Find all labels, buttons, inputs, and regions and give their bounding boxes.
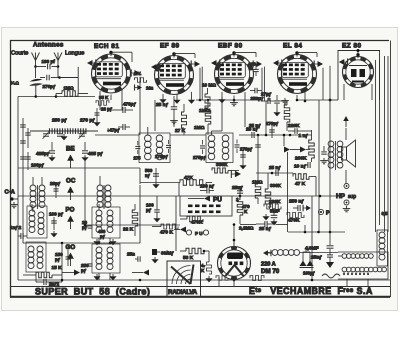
box oscillator PO [27,206,47,238]
ground V2 pin 1 [162,97,164,99]
wire det down [139,185,141,243]
electrolytic triangle ps [329,257,331,262]
oscillator coil L5 [29,210,35,216]
capacitor 25nf det [237,190,243,192]
electrolytic 5MF [271,214,278,216]
svg-text:470K: 470K [191,220,203,226]
wire right rail 2 [379,60,381,216]
ground coil GO 2 [112,274,114,276]
padder coil box PO [92,207,120,238]
padder coil box GO [92,244,120,273]
wire +HT down [345,128,347,140]
title band upper rule [10,286,390,288]
ground speaker [323,158,325,161]
wire EL84 bus [311,158,313,162]
oscillator coil L7 [28,246,34,252]
speaker HP [342,147,347,160]
ground V4 [284,98,286,101]
svg-text:330K: 330K [216,162,228,168]
svg-text:100 pf: 100 pf [42,59,56,64]
svg-text:C·A: C·A [5,190,16,196]
wire top HT [296,95,298,100]
antenna coil L2 [39,185,45,191]
svg-text:270 pƒ: 270 pƒ [80,118,95,124]
svg-text:100pƒ: 100pƒ [31,163,44,168]
capacitor 500nf [153,173,159,175]
svg-text:275pƒ: 275pƒ [155,154,168,159]
svg-text:Antennes: Antennes [33,42,64,49]
wire ps verticals [302,252,304,260]
svg-text:275pƒ: 275pƒ [193,155,206,160]
svg-text:25 nƒ: 25 nƒ [249,123,261,128]
wire top rail [196,99,258,101]
ground V3 b [221,97,223,99]
ground left top [13,202,15,205]
capacitor 25n bm [137,256,139,262]
svg-text:470pƒ: 470pƒ [123,102,136,107]
capacitor 36MF [152,249,157,255]
wire mains down [346,279,348,286]
wire el caps [257,135,259,178]
svg-text:2,2MΩ: 2,2MΩ [239,226,254,232]
arrow to V4 grid [273,60,279,66]
svg-text:pƒ: pƒ [81,268,87,273]
tube V2 top cap wire [174,53,195,55]
arrow 250nf [306,205,311,210]
svg-text:260K: 260K [295,156,307,162]
svg-text:22 K: 22 K [123,227,134,233]
wire IF1 top [139,77,141,135]
IF T1 trimmer 1 [135,145,140,147]
wire DM70 to bus [233,225,235,247]
heater wire [218,277,220,286]
ground 36MF [154,257,156,259]
wire 6V3 to transformer [300,252,339,254]
capacitor 100pf antenna [36,66,47,68]
IF T1 trimmer 2 [166,144,171,146]
wire antenna stem [35,67,37,79]
transformer frame [338,252,388,279]
output transformer primary [328,141,334,147]
ground 25nf V2 [173,118,175,121]
PU box [180,196,232,216]
arrow to V1 grid [87,60,93,66]
ground audio b [265,214,267,216]
IF T2 trimmer 1 [200,145,205,147]
resistor 470K b [287,213,304,218]
svg-text:56 K: 56 K [183,255,194,261]
wire mid rail 2 [170,134,206,136]
ground coil PO 2 [112,239,114,241]
PU switch row 2 [188,211,193,214]
arrow to V2 grid [151,64,157,70]
svg-text:470K: 470K [288,218,300,224]
wire V2 pins [162,94,164,97]
wire ps top [288,231,345,233]
border frame left [10,40,12,297]
svg-text:pƒ: pƒ [82,225,88,230]
svg-text:4,0MF: 4,0MF [305,246,319,252]
wire 330 B+ [329,140,331,232]
antenna coil L1 [30,185,36,191]
ground V3 [233,100,235,103]
wire V3 top cap run [234,51,256,53]
filament winding 6V3 ps [342,254,347,259]
connector PU 2 [203,230,208,235]
variable capacitor CV2 [57,133,63,135]
svg-text:425pƒ: 425pƒ [36,151,50,157]
svg-text:PU: PU [213,197,222,204]
coil core L3L4 [103,185,105,209]
dial box [167,261,201,287]
arrow +HT [345,120,347,127]
svg-text:SUPER BUT 58 (Cadre): SUPER BUT 58 (Cadre) [35,286,150,296]
arrow from V3 anode [257,61,263,67]
arrow PU [204,196,210,202]
wire pu rail [18,195,180,197]
arrow volume [284,147,290,153]
antenna Longue [54,53,58,61]
resistor 22K [132,210,138,226]
svg-text:1nƒ 2: 1nƒ 2 [10,225,22,230]
tube V3 EBF 80 [215,55,254,94]
svg-text:P U: P U [195,231,203,236]
arrow to V3 grid [211,60,217,66]
wire to grid [60,77,79,79]
coil L11 [96,247,102,253]
arrow from V2 anode [195,61,201,67]
wire left column [22,118,24,243]
wire mid bus [85,224,180,226]
capacitor speaker [321,151,327,153]
resistor 15K [36,272,52,278]
coil L12 [107,247,113,253]
coil core L1L2 [37,185,39,209]
wire V5 arrow down [329,66,331,100]
IF T1 primary coil [145,135,152,142]
svg-text:1MΩ: 1MΩ [64,86,74,91]
arrow AV [137,85,142,90]
ground 100pf pu [156,216,158,218]
svg-text:330K: 330K [270,183,282,188]
wire x85 vertical [84,158,86,225]
wire HT vertical 1 [318,100,320,232]
IF T2 trimmer 2 [235,144,240,146]
arrow PU gnd [180,227,186,233]
svg-text:1: 1 [236,197,239,202]
wire DM70 bottom [233,280,235,287]
ground 47K dial [208,276,210,278]
svg-text:425 pƒ: 425 pƒ [88,151,103,157]
svg-text:10 MΩ: 10 MΩ [202,83,216,88]
svg-text:1MΩ: 1MΩ [194,125,205,131]
arrow det out [235,171,241,178]
tuning dial arcs [186,279,191,284]
capacitor 250pf b [88,263,93,265]
arrow DM70 [263,250,268,255]
arrow to V5 plate [339,59,345,65]
resistor 1M det [255,184,261,198]
capacitor 20pf b [88,225,93,227]
connector HP sup 2 [344,200,349,205]
ground coil PO [96,239,98,241]
svg-text:EBF 80: EBF 80 [218,43,243,50]
ground HP [346,206,348,209]
svg-text:pƒ: pƒ [55,257,61,262]
capacitor column 4 [25,156,31,158]
svg-text:220 A: 220 A [261,262,276,268]
tube V5 EZ 80 [343,57,374,88]
wire bottom bus [18,279,390,281]
ground 5MF [273,219,275,221]
svg-text:A.V.: A.V. [134,71,142,76]
svg-text:47 K: 47 K [295,181,306,187]
svg-text:270pƒ: 270pƒ [240,147,253,152]
capacitor 40MF [327,245,334,247]
electrolytic 50MF 2 [309,260,311,264]
tube V1 top cap wire [111,51,132,53]
antenna Courte [32,53,36,61]
svg-text:270pƒ: 270pƒ [266,121,279,126]
tube V6 DM 70 [218,247,251,280]
svg-text:10 nƒ: 10 nƒ [294,164,307,170]
svg-text:Eᵗˢ VECHAMBRE Fʳᵉˢ S.A: Eᵗˢ VECHAMBRE Fʳᵉˢ S.A [249,286,373,296]
IF transformer T1 box [139,133,170,163]
wire right rail 1 [375,60,377,216]
junction HT [329,99,332,102]
svg-text:EZ 80: EZ 80 [342,43,362,50]
svg-text:Courte: Courte [11,51,28,57]
resistor 470K det [161,224,178,229]
ground gang [63,134,65,136]
wire transformer down [345,170,347,184]
svg-text:1 nƒ: 1 nƒ [299,133,309,139]
svg-text:25nƒ: 25nƒ [232,185,243,191]
wire left vertical bus [17,97,19,281]
wire mid rail 3 [239,134,312,136]
arrow bottom [143,270,149,276]
wire 288 v [287,152,289,214]
border frame top [10,40,389,42]
transformer taps [343,273,345,275]
border frame right [390,41,392,298]
variable capacitor CV3 [79,133,85,135]
svg-text:6,5: 6,5 [382,211,388,216]
IF T1 secondary coil [156,135,163,142]
svg-text:OC: OC [66,178,76,185]
IF T2 secondary coil [222,135,229,142]
wire 56K right [204,250,209,252]
svg-text:36/Mƒ: 36/Mƒ [161,251,174,256]
resistor 47K out [293,174,309,180]
oscillator coil L6 [38,212,44,218]
wire longue down [57,67,59,78]
tube V2 EF 89 [155,56,194,95]
jack P [318,209,323,214]
svg-text:GO: GO [66,244,76,251]
capacitor 25nf ps [327,254,333,256]
capacitor column 3 [25,132,31,134]
ground 425pf right [84,155,86,157]
tube V4 top cap run [297,52,317,54]
connector HP sup 1 [344,184,349,189]
svg-text:pƒ: pƒ [100,234,106,239]
svg-text:100: 100 [249,62,257,67]
svg-text:Longue: Longue [65,51,84,57]
svg-text:15 K: 15 K [52,265,63,271]
ground V1 k [96,120,98,122]
wire EL84 grid [268,95,270,101]
svg-text:ECH 81: ECH 81 [94,43,119,50]
wire det verticals [175,196,177,251]
coil L9 [96,210,102,216]
switch antenna [30,79,43,82]
svg-text:270pƒ: 270pƒ [43,84,56,89]
wire det bus [139,168,141,184]
svg-text:5MF: 5MF [270,209,280,215]
svg-text:95 K: 95 K [99,95,109,100]
filament coil 6V3 [272,250,278,256]
ground 500nf [155,182,157,184]
antenna coil L3 [97,185,103,191]
arrow BE [70,160,72,168]
ground 100pf PO [53,231,55,233]
arrow from V4 anode [318,61,324,67]
wire right rail 3 [384,56,386,232]
svg-text:¹⁄₊Ω: ¹⁄₊Ω [11,81,20,86]
ground V2 pin 2 [176,98,178,100]
resistor bottom strip 1 [250,276,264,281]
wire V4 anode arrow down [322,68,324,100]
capacitor column 2 [20,140,26,142]
svg-text:pƒ: pƒ [310,271,316,276]
wire HT vertical 2 [329,100,331,140]
border frame bottom [10,296,390,298]
resistor 10M [205,94,210,112]
svg-text:470 K: 470 K [160,230,173,236]
resistor bottom strip 2 [216,276,228,281]
wire V3 grid arrow down [201,67,203,100]
connector C+A [10,197,13,200]
capacitor 27pf [254,88,256,94]
svg-text:20pƒ: 20pƒ [50,181,61,186]
choke box [377,230,388,266]
svg-text:250 nƒ: 250 nƒ [289,199,304,205]
output transformer secondary [337,141,343,147]
wire V2 anode arrow down [199,68,201,100]
ground V2 pin 3 [191,98,193,100]
dial needle 1 [171,267,191,285]
svg-text:DM 70: DM 70 [261,268,280,275]
wire EZ80 sides [343,84,345,100]
wire V3 pins down [221,92,223,131]
svg-text:sup: sup [348,194,356,200]
tube V4 EL 84 [278,55,317,94]
capacitor V4 cathode [274,100,280,102]
capacitor 270pf v [269,129,275,131]
wire V4 grid arrow down [263,67,265,101]
svg-text:16n: 16n [146,86,154,91]
wire HT to EZ [330,99,338,101]
box oscillator GO [26,242,46,272]
ground 425pf left [51,155,53,157]
PU switch row 1 [188,205,193,208]
coil L10 [107,210,113,216]
capacitor 270pf antenna [40,77,45,79]
svg-text:BE: BE [66,146,75,153]
arrow from V1 anode [135,70,141,76]
capacitor 150pf [66,256,71,258]
wire DM70 top [233,240,235,247]
wire pu rail right [232,195,345,197]
resistor 56K [186,248,204,254]
wire right rail 4 [387,56,389,232]
wire 1M left [55,94,57,97]
svg-text:↓47pƒ: ↓47pƒ [107,128,120,133]
IF T2 primary coil [208,135,215,142]
wire 305 v2 [304,225,306,232]
resistor 470K PU [187,216,203,222]
wire 62 vertical [61,243,63,275]
wire AGC top [18,96,36,98]
ground 270pf det [242,163,244,165]
svg-text:EF 89: EF 89 [160,43,180,50]
antenna coil L4 [105,185,111,191]
capacitor 10nf [307,162,309,168]
capacitor column 1 [20,124,26,126]
wire 243 bus [23,242,140,244]
wire V2 anode down [173,121,175,127]
electrolytic 50MF 1 [302,260,304,264]
tuning gang row [30,130,98,132]
resistor 220K v [284,105,290,122]
svg-text:25n: 25n [127,252,135,257]
svg-text:100 pƒ: 100 pƒ [49,212,64,217]
capacitor 25nf b [264,221,266,227]
wire audio 173 [256,172,293,174]
svg-text:275: 275 [134,156,142,161]
logo box RADIALVA [167,261,201,297]
box around EZ 80 [338,51,380,101]
svg-text:HP: HP [336,193,346,200]
filter choke coil [379,232,385,238]
dial needle 2 [191,265,194,285]
capacitor 250nf b [297,205,299,211]
variable capacitor CV1 [43,133,49,135]
capacitor 270pf det [240,154,246,156]
wire mid rail left [95,134,139,136]
svg-text:25 nƒ: 25 nƒ [156,102,169,108]
wire 2.2M bus [240,224,256,226]
capacitor mid [255,144,261,146]
wire V3 anode arrow down [261,68,263,101]
transformer core [335,141,337,170]
svg-text:nƒ: nƒ [145,173,151,178]
resistor 330K [212,168,228,173]
svg-text:25nƒ: 25nƒ [311,255,322,261]
svg-text:250 pƒ: 250 pƒ [52,118,67,124]
svg-text:25 nƒ: 25 nƒ [269,165,281,170]
svg-text:RADIALVA: RADIALVA [168,289,198,296]
mains squiggle [322,274,340,278]
wire grid line [56,96,95,98]
svg-text:220K: 220K [288,123,300,129]
padder stubs [98,238,100,244]
wire 47K down [178,183,180,197]
svg-text:EL 84: EL 84 [283,43,302,50]
svg-text:1MΩ: 1MΩ [252,180,263,186]
arrow bottom 2 [74,270,80,276]
